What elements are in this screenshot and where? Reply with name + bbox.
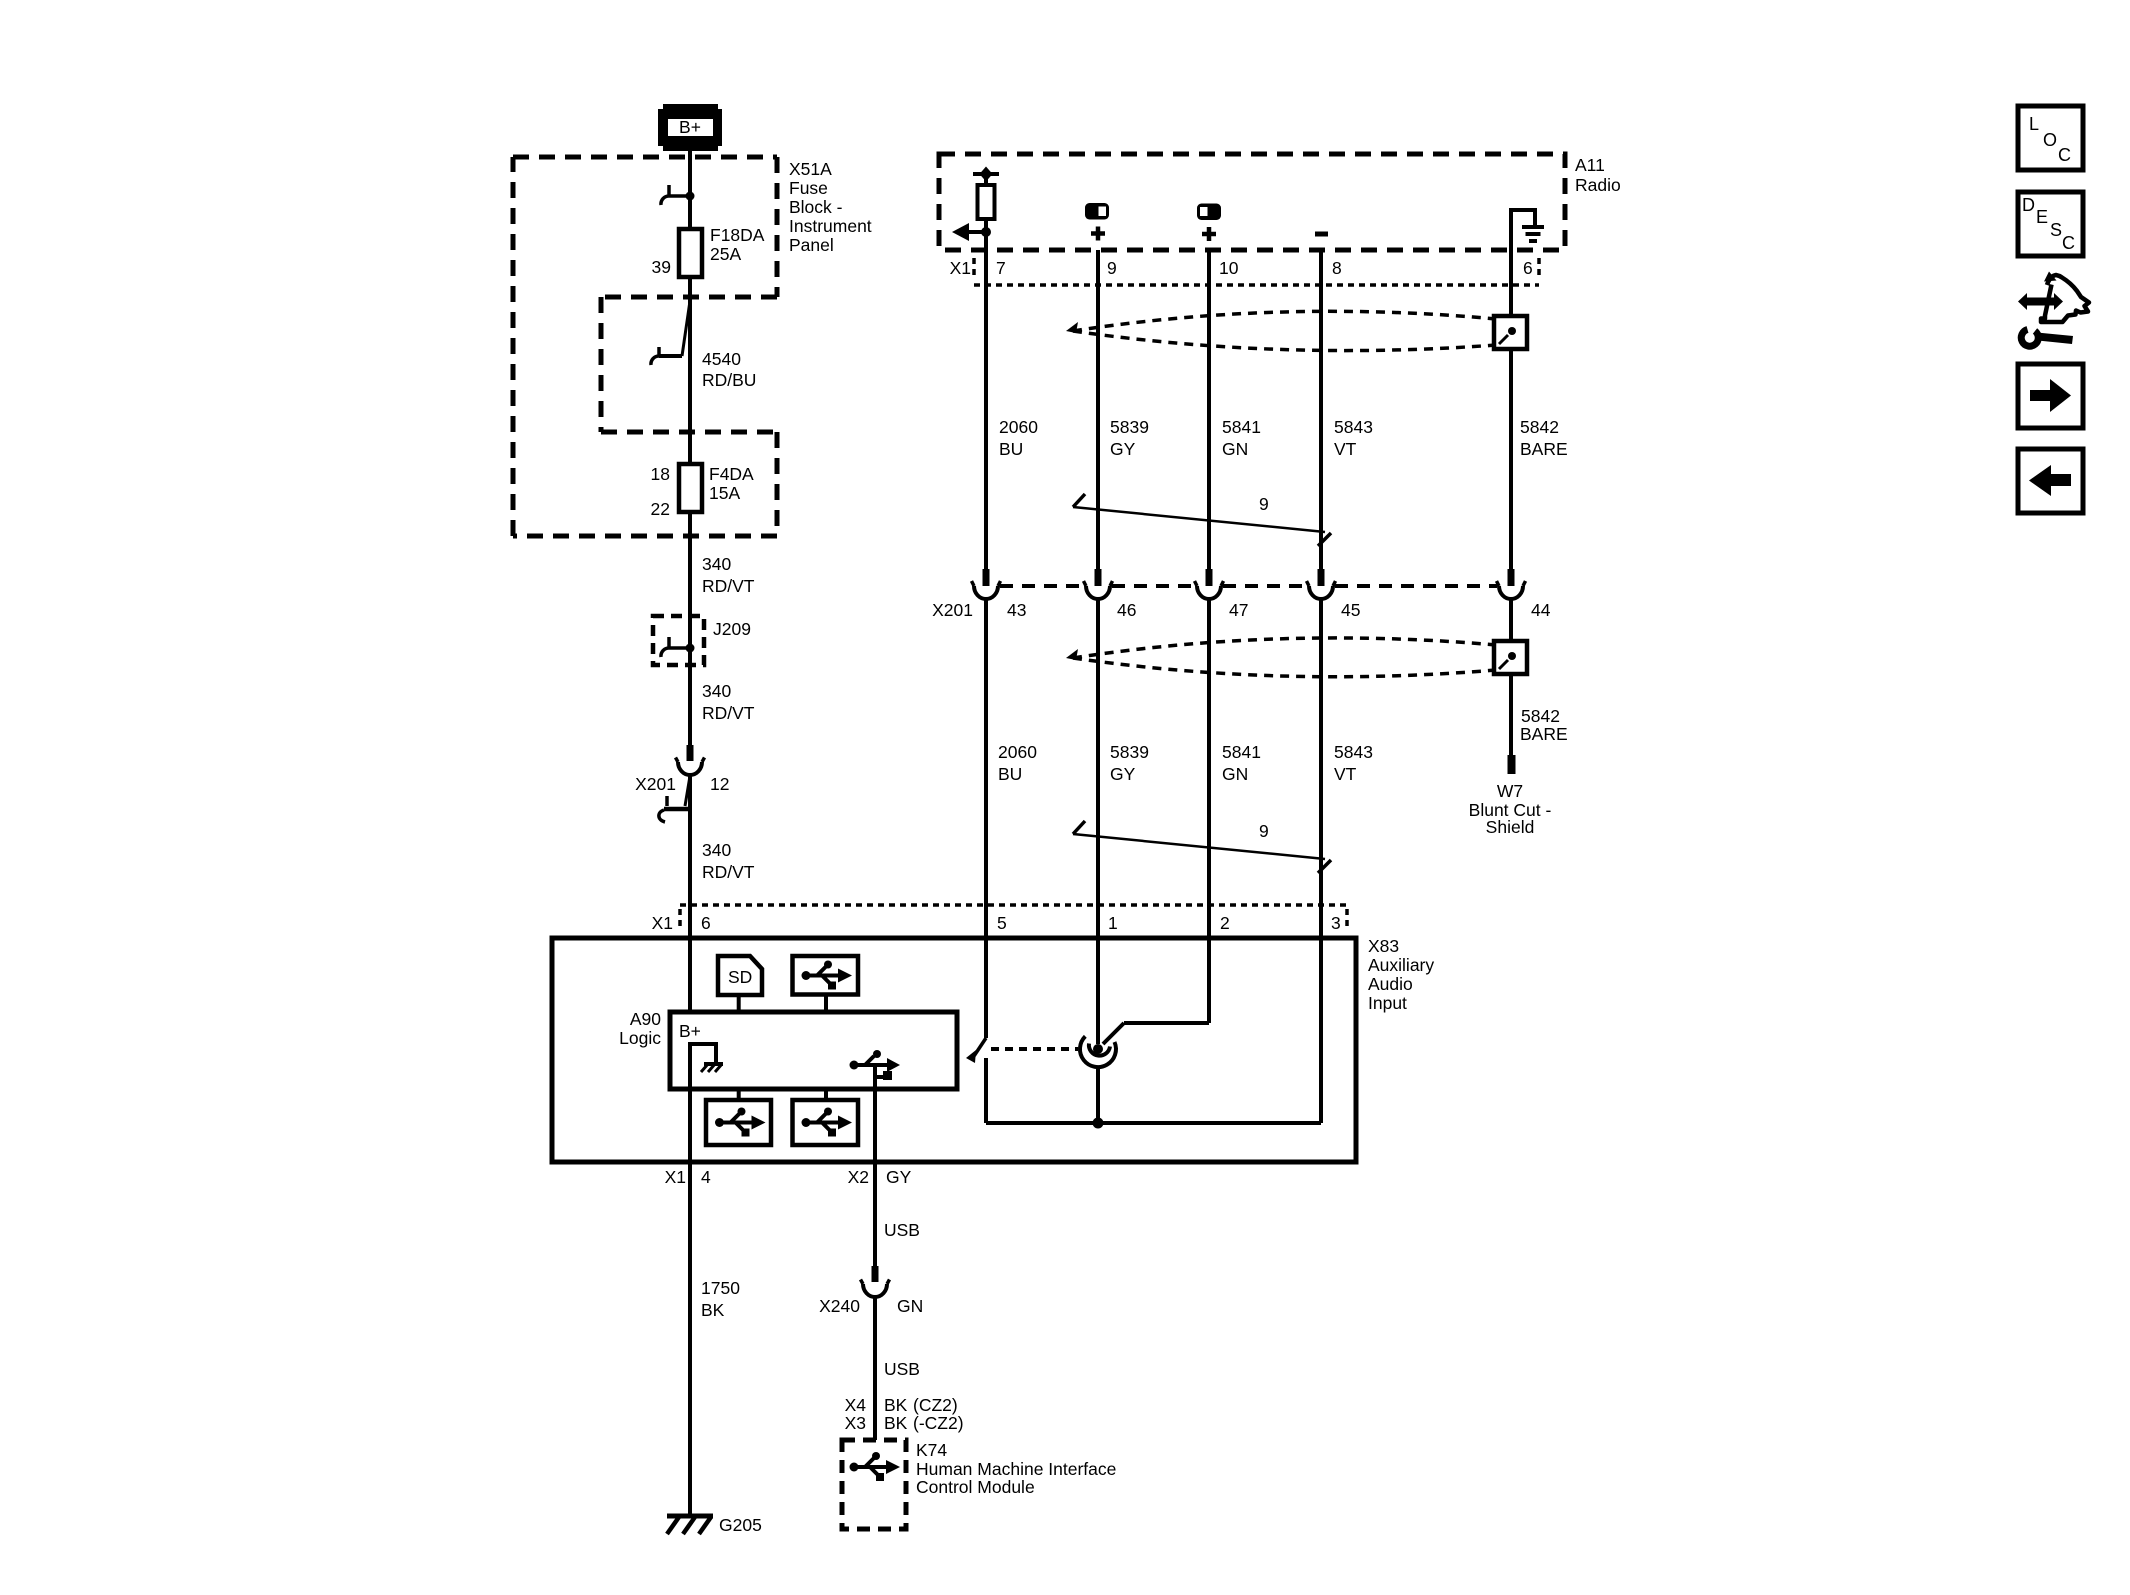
wire label 2060 BU upper [999,417,1038,459]
USB icon top stem [824,995,828,1013]
svg-text:5839: 5839 [1110,417,1149,437]
X83 pin 3 label [1331,913,1341,933]
svg-text:Block -: Block - [789,197,843,217]
svg-text:BK: BK [884,1395,908,1415]
wire 5841 GN radio to X201 [1207,250,1211,570]
minus sign pin 8 [1315,232,1328,237]
splice J209 label [713,619,751,639]
svg-text:Input: Input [1368,993,1407,1013]
wire label 4540 RD/BU [702,349,756,390]
wire 5839 GY into jack tip [1096,938,1100,1044]
fuse F4DA 15A [679,464,702,512]
svg-text:22: 22 [651,499,670,519]
svg-text:F4DA: F4DA [709,464,754,484]
svg-text:G205: G205 [719,1515,762,1535]
svg-text:(-CZ2): (-CZ2) [913,1413,964,1433]
svg-text:BARE: BARE [1520,724,1568,744]
splice J209 dashed box [653,616,704,665]
radio internal antenna feed resistor [973,167,999,251]
svg-text:2060: 2060 [999,417,1038,437]
svg-text:BK: BK [884,1413,908,1433]
USB icon top [793,956,859,995]
radio internal junction dot and left arrow [952,223,991,241]
radio pin 6 label [1523,258,1533,278]
cable annotation 9 lower [1073,821,1331,873]
svg-text:X1: X1 [652,913,673,933]
shielded cable ellipse upper [1066,311,1496,350]
wire label 5841 GN lower [1222,742,1261,784]
pin 39 label [652,257,671,277]
wire label 2060 BU lower [998,742,1037,784]
pin 18 label [651,464,670,484]
svg-text:47: 47 [1229,600,1248,620]
connector X4 X3 labels [845,1395,964,1433]
power symbol B+ battery feed [658,104,722,151]
wire label 5839 GY lower [1110,742,1149,784]
svg-text:5843: 5843 [1334,417,1373,437]
svg-text:340: 340 [702,554,731,574]
svg-text:C: C [2062,233,2075,253]
splice J209 terminal clip [661,637,695,657]
radio internal earth ground pin 6 [1511,210,1544,250]
svg-text:6: 6 [701,913,711,933]
wire: B+ down to fuse F18DA [688,151,692,229]
radio pin 8 label [1332,258,1342,278]
connector X201 pin 45 terminal [1307,569,1336,599]
wire label USB lower [884,1359,920,1379]
wire 5839 GY radio to X201 [1096,250,1100,570]
radio pin 9 label [1107,258,1117,278]
svg-text:J209: J209 [713,619,751,639]
terminal clip on circuit 4540 at fuse block exit [651,301,690,365]
radio pin 7 label [996,258,1006,278]
blunt cut W7 labels [1469,781,1552,837]
svg-text:RD/VT: RD/VT [702,576,755,596]
svg-text:B+: B+ [679,1021,701,1041]
sidebar harness repair icon [2018,272,2089,347]
svg-text:C: C [2058,145,2071,165]
sidebar LOC box [2018,106,2083,170]
radio connector X1 dotted row [974,258,1539,285]
wire: circuit 340 RD/VT fuse block to J209 [688,512,692,746]
svg-text:9: 9 [1259,494,1269,514]
svg-text:15A: 15A [709,483,740,503]
connector X240 terminal [861,1266,890,1297]
svg-text:E: E [2036,207,2048,227]
svg-text:VT: VT [1334,439,1357,459]
wire label 5843 VT upper [1334,417,1373,459]
svg-text:USB: USB [884,1220,920,1240]
plus sign pin 9 [1091,227,1105,241]
blunt cut tick W7 [1508,755,1516,774]
fuse F18DA 25A [679,229,702,277]
USB port glyph inside A90 [850,1050,901,1080]
connector X201 row dashed line [1000,584,1497,588]
svg-text:Human Machine Interface: Human Machine Interface [916,1459,1116,1479]
connector X201 pin 47 terminal [1195,569,1224,599]
svg-text:GY: GY [1110,764,1136,784]
wire label 5842 BARE upper [1520,417,1568,459]
node B+ inside A90 [679,1021,701,1041]
svg-text:5841: 5841 [1222,742,1261,762]
terminal clip at X51A fuse block input [661,185,695,205]
X83 pin 1 label [1108,913,1118,933]
svg-text:5: 5 [997,913,1007,933]
wire 5843 VT radio to X201 [1319,250,1323,570]
jack switch lever to pin 2 [1103,1023,1209,1044]
SD card icon [718,956,762,995]
USB icon bottom left stem [737,1089,741,1100]
pin 47 label [1229,600,1248,620]
svg-text:X4: X4 [845,1395,867,1415]
svg-text:8: 8 [1332,258,1342,278]
connector X201 pin 12 labels [635,774,729,794]
svg-text:5842: 5842 [1520,417,1559,437]
svg-text:GY: GY [886,1167,912,1187]
wire 5841 GN X201 to X83 [1207,599,1211,938]
svg-text:18: 18 [651,464,670,484]
shield termination square upper [1494,316,1527,349]
svg-text:B+: B+ [679,117,701,137]
svg-text:39: 39 [652,257,671,277]
X83 pin 5 label [997,913,1007,933]
svg-text:X51A: X51A [789,159,832,179]
pin 44 label [1531,600,1551,620]
svg-text:BARE: BARE [1520,439,1568,459]
shielded cable ellipse lower [1066,638,1496,677]
svg-text:10: 10 [1219,258,1239,278]
ground G205 label [719,1515,762,1535]
jack sleeve stem [1096,1066,1100,1123]
radio A11 dashed box [939,154,1565,250]
audio jack symbol [1080,1036,1116,1067]
cable annotation 9 upper [1073,494,1331,546]
junction dot on bus [1093,1118,1104,1129]
connector X201 pin 46 terminal [1084,569,1113,599]
svg-text:BK: BK [701,1300,725,1320]
svg-text:Fuse: Fuse [789,178,828,198]
wire label 340 RD/VT (first) [702,554,755,596]
svg-text:X1: X1 [950,258,971,278]
wire 2060 BU X201 to X83 [984,599,988,938]
svg-text:SD: SD [728,967,752,987]
svg-text:5843: 5843 [1334,742,1373,762]
fuse F18DA value labels [710,225,765,264]
svg-text:RD/VT: RD/VT [702,862,755,882]
connector X240 labels [819,1296,923,1316]
sidebar next page arrow box [2018,364,2083,428]
svg-text:X201: X201 [932,600,973,620]
pin 43 label [1007,600,1026,620]
svg-text:F18DA: F18DA [710,225,765,245]
wire: A90 B+ bus down to G205 [690,1044,716,1516]
svg-text:4: 4 [701,1167,711,1187]
svg-text:A11: A11 [1575,155,1605,175]
wire: 340 RD/VT X201 to X83 [688,776,692,1012]
svg-text:S: S [2050,220,2062,240]
USB icon bottom right stem [824,1089,828,1100]
wire 5843 VT X201 to X83 [1319,599,1323,938]
svg-text:BU: BU [998,764,1022,784]
terminal clip below X201 pin 12 [659,776,690,822]
svg-text:46: 46 [1117,600,1136,620]
A90 Logic labels [619,1009,661,1048]
svg-text:L: L [2029,114,2039,134]
svg-text:7: 7 [996,258,1006,278]
svg-text:X1: X1 [665,1167,686,1187]
svg-text:4540: 4540 [702,349,741,369]
svg-text:X3: X3 [845,1413,866,1433]
svg-text:GN: GN [897,1296,923,1316]
svg-text:X83: X83 [1368,936,1399,956]
svg-text:6: 6 [1523,258,1533,278]
USB icon bottom left [706,1100,771,1145]
svg-text:43: 43 [1007,600,1026,620]
wire X2 GY USB from A90 to X83 edge [873,1065,877,1162]
wire 5843 VT inside X83 [1319,938,1323,1123]
logic block A90 [670,1012,957,1089]
auxiliary audio input X83 box [552,938,1356,1162]
X83 bottom connector labels [665,1167,912,1187]
sidebar DESC box [2018,192,2083,256]
control module K74 dashed box [842,1440,906,1529]
wire label 5842 BARE lower [1520,706,1568,744]
svg-text:Control Module: Control Module [916,1477,1035,1497]
svg-text:X201: X201 [635,774,676,794]
shield termination square lower [1494,641,1527,674]
svg-text:VT: VT [1334,764,1357,784]
svg-text:45: 45 [1341,600,1360,620]
svg-text:44: 44 [1531,600,1551,620]
svg-text:Audio: Audio [1368,974,1413,994]
wire label 1750 BK [701,1278,740,1320]
svg-text:5841: 5841 [1222,417,1261,437]
radio speaker icon pin 9 [1085,203,1109,220]
radio pin 10 label [1219,258,1239,278]
svg-text:X240: X240 [819,1296,860,1316]
connector X201 label [932,600,973,620]
connector X201 pin 43 terminal [972,569,1001,599]
svg-text:K74: K74 [916,1440,947,1460]
pin 22 label [651,499,670,519]
svg-text:D: D [2022,195,2035,215]
wire 2060 BU inside X83 with arrow jog [966,938,986,1123]
connector X201 pin 12 male terminal [687,745,694,761]
svg-text:GY: GY [1110,439,1136,459]
wire label 5839 GY upper [1110,417,1149,459]
chassis ground inside A90 [701,1064,723,1072]
fuse block X51A name labels [789,159,872,255]
wire label 5843 VT lower [1334,742,1373,784]
svg-text:Auxiliary: Auxiliary [1368,955,1434,975]
ground bus inside X83 [986,1121,1321,1125]
svg-text:Shield: Shield [1486,817,1535,837]
svg-text:12: 12 [710,774,729,794]
radio A11 name labels [1575,155,1621,195]
svg-text:GN: GN [1222,764,1248,784]
connector X201 pin 44 terminal [1497,569,1526,599]
svg-text:BU: BU [999,439,1023,459]
connector X1 of X83 dotted row [680,905,1347,930]
wire USB X2 to X240 [873,1162,877,1266]
svg-text:340: 340 [702,840,731,860]
svg-text:O: O [2043,130,2057,150]
connector X1 of X83 label [652,913,673,933]
USB glyph inside K74 [850,1452,901,1481]
svg-text:340: 340 [702,681,731,701]
svg-text:(CZ2): (CZ2) [913,1395,958,1415]
X83 pin 2 label [1220,913,1230,933]
svg-text:1750: 1750 [701,1278,740,1298]
pin 46 label [1117,600,1136,620]
svg-text:5839: 5839 [1110,742,1149,762]
sidebar previous page arrow box [2018,449,2083,513]
wire 2060 BU radio to X201 [984,250,988,570]
wire 5841 GN inside X83 [1207,938,1211,1023]
wire 5842 BARE shield drain radio to X201 [1509,250,1513,570]
wire 5842 BARE X201 to blunt cut [1509,599,1513,755]
fuse F4DA value labels [709,464,754,503]
svg-text:USB: USB [884,1359,920,1379]
svg-text:9: 9 [1259,821,1269,841]
svg-text:RD/VT: RD/VT [702,703,755,723]
svg-text:A90: A90 [630,1009,661,1029]
svg-text:25A: 25A [710,244,741,264]
svg-text:2: 2 [1220,913,1230,933]
SD icon stem [737,995,741,1012]
radio speaker icon pin 10 [1197,204,1221,221]
svg-text:9: 9 [1107,258,1117,278]
ground G205 symbol [667,1516,713,1534]
K74 name labels [916,1440,1116,1497]
X83 pin 6 label [701,913,711,933]
svg-text:GN: GN [1222,439,1248,459]
svg-text:3: 3 [1331,913,1341,933]
svg-text:Instrument: Instrument [789,216,872,236]
wire label 340 RD/VT (third) [702,840,755,882]
X83 name labels [1368,936,1434,1013]
USB icon bottom right [793,1100,859,1145]
pin 45 label [1341,600,1360,620]
dashed detect line to jack [991,1047,1078,1051]
wire USB X240 to K74 [873,1297,877,1440]
fuse block X51A dashed outline [513,157,777,536]
wire label 340 RD/VT (second) [702,681,755,723]
svg-text:2060: 2060 [998,742,1037,762]
svg-text:5842: 5842 [1521,706,1560,726]
connector X201 pin 12 female cup [676,758,705,776]
svg-text:Radio: Radio [1575,175,1621,195]
svg-text:RD/BU: RD/BU [702,370,756,390]
radio connector X1 label [950,258,971,278]
wire: fuse F18DA to fuse F4DA (circuit 4540 RD/BU) [688,277,692,464]
svg-text:X2: X2 [848,1167,869,1187]
svg-text:1: 1 [1108,913,1118,933]
wire label USB upper [884,1220,920,1240]
svg-text:Logic: Logic [619,1028,661,1048]
svg-text:Panel: Panel [789,235,834,255]
wire 5839 GY X201 to X83 [1096,599,1100,938]
plus sign pin 10 [1202,227,1216,241]
wire label 5841 GN upper [1222,417,1261,459]
svg-text:W7: W7 [1497,781,1523,801]
